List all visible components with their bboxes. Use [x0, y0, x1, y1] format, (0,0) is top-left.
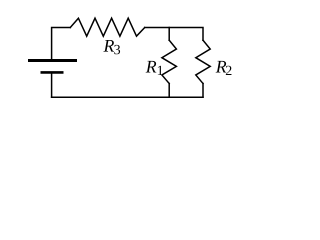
svg-text:R3: R3	[103, 36, 121, 59]
svg-text:R1: R1	[145, 57, 164, 80]
svg-text:R2: R2	[215, 57, 232, 80]
